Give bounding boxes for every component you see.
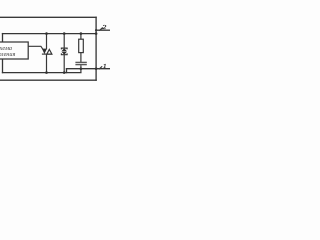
- wire terminal 1 line: [67, 68, 111, 70]
- enclosure top edge: [0, 16, 96, 18]
- terminal tick 2: [99, 28, 103, 31]
- node top rail suppressor: [63, 32, 66, 35]
- node snubber terminal line: [80, 67, 83, 70]
- terminal tick 1: [99, 66, 102, 69]
- label terminal 1: [103, 64, 107, 70]
- node terminal 1: [95, 67, 98, 70]
- node bottom rail suppressor: [63, 71, 66, 74]
- wire bottom rail: [3, 72, 81, 74]
- wire capacitor bottom: [80, 65, 82, 72]
- node bottom rail triac: [45, 71, 48, 74]
- enclosure bottom edge: [0, 79, 96, 81]
- wire stub rail to terminal line: [66, 69, 68, 73]
- wire left vertical upper: [2, 34, 4, 42]
- label terminal 2: [102, 24, 106, 31]
- wire top rail: [3, 33, 97, 35]
- node top rail resistor: [80, 32, 83, 35]
- svg-text:1: 1: [103, 64, 107, 70]
- svg-text:управления: управления: [0, 51, 15, 58]
- resistor R: [79, 34, 84, 62]
- wire terminal 2 line: [96, 29, 110, 31]
- wire gate from control box: [28, 46, 43, 49]
- node top rail triac: [45, 32, 48, 35]
- node terminal 2: [95, 29, 97, 31]
- enclosure right edge: [95, 17, 97, 80]
- control box U1: [0, 42, 28, 59]
- capacitor C: [75, 62, 86, 64]
- suppressor VD: [61, 34, 67, 73]
- wire left vertical lower: [2, 59, 4, 73]
- triac VS: [42, 34, 52, 73]
- node top rail right end: [95, 32, 98, 35]
- svg-text:2: 2: [102, 24, 106, 31]
